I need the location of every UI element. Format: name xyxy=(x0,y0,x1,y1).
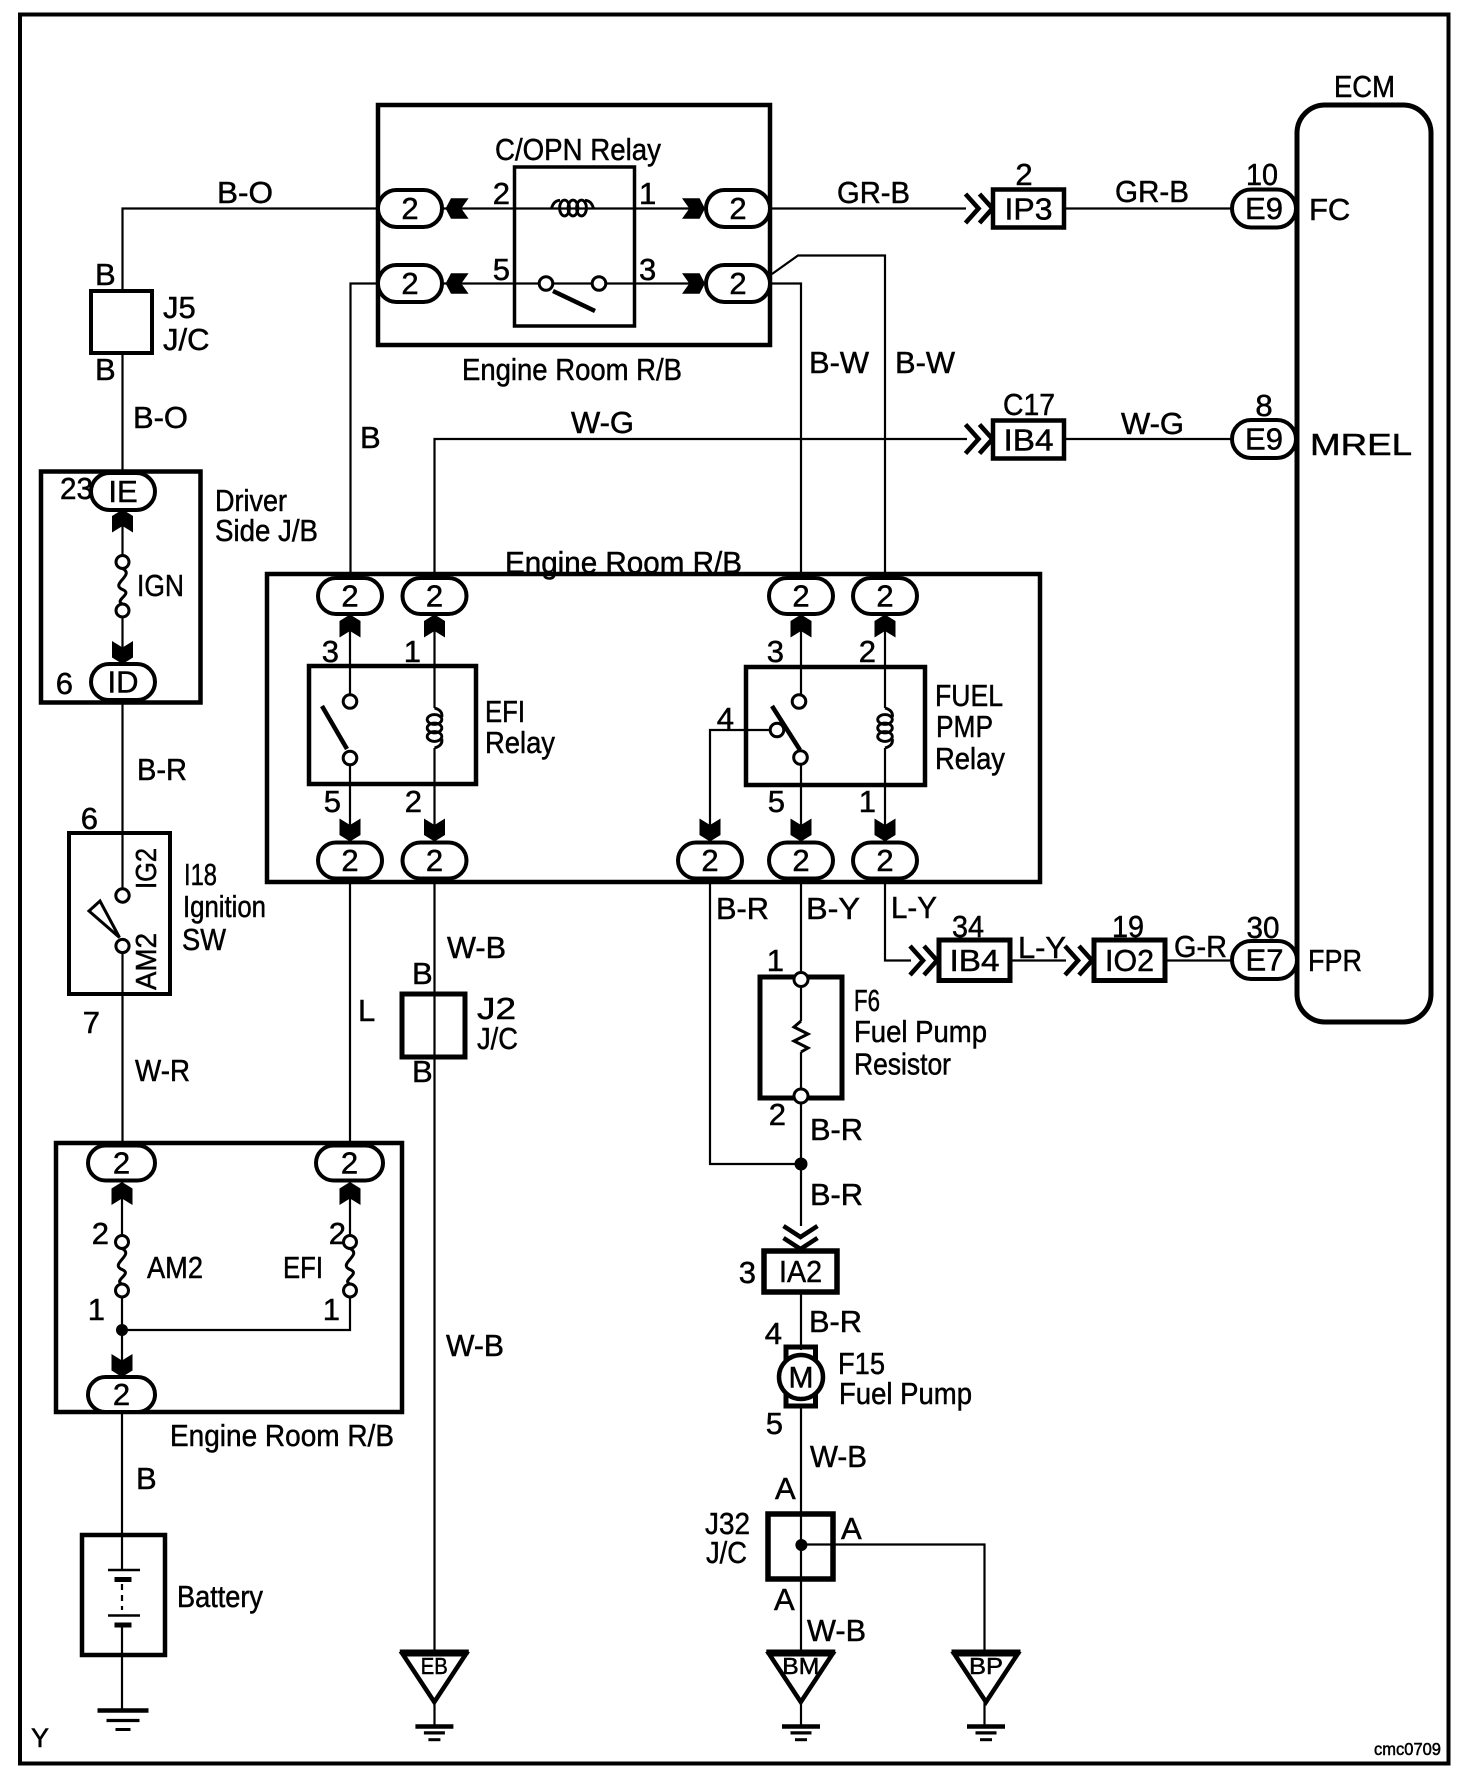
svg-text:Fuel Pump: Fuel Pump xyxy=(854,1014,987,1049)
Engine Room R/B box (C/OPN relay) xyxy=(378,105,770,345)
svg-text:Fuel Pump: Fuel Pump xyxy=(839,1376,972,1411)
wire B-O from J5 to Driver Side J/B pin 23 xyxy=(121,351,123,474)
fuel pump F15 motor xyxy=(779,1347,823,1406)
chevron connector to IB4 C17 xyxy=(966,425,993,454)
svg-text:1: 1 xyxy=(859,784,876,819)
C/OPN relay switch blade xyxy=(553,291,595,311)
label FPR xyxy=(1308,943,1362,978)
wire label B-W (right) xyxy=(895,345,956,380)
svg-text:B: B xyxy=(95,352,116,387)
svg-text:B: B xyxy=(412,956,433,991)
EFI relay box xyxy=(309,666,476,784)
label EFI xyxy=(283,1250,323,1285)
wire A from J32 junction to BP ground xyxy=(801,1545,985,1653)
svg-text:A: A xyxy=(775,1471,796,1506)
wire inside Driver J/B: IGN fuse to ID xyxy=(121,615,123,666)
battery box xyxy=(82,1535,165,1655)
svg-text:F6: F6 xyxy=(854,983,880,1018)
footnote Y xyxy=(31,1723,49,1753)
svg-text:B: B xyxy=(95,257,116,292)
svg-text:Engine Room R/B: Engine Room R/B xyxy=(170,1418,394,1453)
chevron connector to IP3 xyxy=(966,194,993,223)
wire from EFI fuse bottom to junction xyxy=(122,1297,350,1330)
connector E9 (MREL) xyxy=(1232,420,1296,458)
svg-text:W-B: W-B xyxy=(447,930,506,965)
ground symbol BM xyxy=(782,1727,820,1740)
svg-text:IGN: IGN xyxy=(137,568,184,603)
pin 23 label xyxy=(60,471,93,506)
wire label B (EFI relay feed) xyxy=(360,420,381,455)
svg-text:8: 8 xyxy=(1255,388,1272,423)
connector 2 (battery side) xyxy=(88,1377,155,1412)
pin 19 label xyxy=(1112,909,1144,944)
fuel pump resistor F6 box xyxy=(760,977,842,1098)
wire W-G from IB4 to ECM MREL xyxy=(1064,438,1232,440)
svg-text:FUEL: FUEL xyxy=(935,678,1003,713)
wire FUEL PMP relay coil pin 2 xyxy=(884,614,886,708)
svg-text:PMP: PMP xyxy=(936,709,993,744)
pin 1 label (AM2) xyxy=(88,1292,105,1327)
pin 4 label (FUEL PMP relay) xyxy=(717,701,734,736)
chevron connector to IA2 xyxy=(784,1226,818,1249)
wire B from C/OPN relay pin 5 to EFI relay pin 3 xyxy=(351,284,379,580)
svg-text:2: 2 xyxy=(792,843,809,878)
junction node B-R xyxy=(795,1158,808,1171)
svg-text:IO2: IO2 xyxy=(1105,943,1154,978)
wire label B-R xyxy=(137,752,187,787)
connector 2 (C/OPN pin 5 side) xyxy=(378,265,442,302)
chevron connector to IO2 xyxy=(1065,946,1092,975)
EFI relay coil xyxy=(427,708,442,748)
wire label W-B (below pump) xyxy=(810,1439,867,1474)
svg-text:B: B xyxy=(412,1054,433,1089)
svg-text:3: 3 xyxy=(639,252,656,287)
wire G-R from IO2 to ECM FPR xyxy=(1165,959,1232,961)
label Engine Room R/B (lower) xyxy=(170,1418,394,1453)
label IGN xyxy=(137,568,184,603)
wire A from J32 to BM ground xyxy=(800,1579,802,1652)
svg-text:2: 2 xyxy=(876,579,893,614)
connector 2 (EFI fuse top) xyxy=(316,1146,383,1181)
wire label B (battery) xyxy=(136,1461,157,1496)
pin 3 label (EFI relay) xyxy=(322,634,339,669)
label Battery xyxy=(177,1579,263,1614)
connector arrows down (relay bottoms) xyxy=(340,819,896,842)
wire label B-R (above IA2) xyxy=(810,1177,863,1212)
pin 2 label (EFI) xyxy=(329,1216,346,1251)
svg-text:2: 2 xyxy=(401,191,418,226)
connector 2 (FUEL PMP pin 3 top) xyxy=(769,578,833,614)
junction node below AM2 fuse xyxy=(116,1324,128,1336)
svg-text:Ignition: Ignition xyxy=(183,889,266,924)
junction connector J2 J/C xyxy=(402,994,465,1057)
svg-text:2: 2 xyxy=(426,843,443,878)
pin 2 label xyxy=(493,176,510,211)
svg-text:W-R: W-R xyxy=(135,1053,190,1088)
connector 2 (EFI relay pin 1 top) xyxy=(403,578,467,614)
chevron connector to IB4 (34) xyxy=(910,946,937,975)
wire label W-B (above EB) xyxy=(446,1328,504,1363)
label AM2 (rotated) xyxy=(131,933,163,990)
svg-text:J5: J5 xyxy=(163,290,196,325)
wire label W-B (above BM) xyxy=(807,1613,866,1648)
svg-text:ECM: ECM xyxy=(1334,69,1395,104)
svg-text:B-R: B-R xyxy=(716,891,769,926)
wire label B (below J2) xyxy=(412,1054,433,1089)
pin 1 label (FUEL PMP relay) xyxy=(859,784,876,819)
pin 6 label xyxy=(56,666,73,701)
wire W-B from EFI relay pin 2 through J2 to EB ground xyxy=(433,879,435,1653)
svg-text:FC: FC xyxy=(1309,192,1350,227)
pin 5 label (EFI relay) xyxy=(324,784,341,819)
svg-text:5: 5 xyxy=(768,784,785,819)
C/OPN relay switch contacts xyxy=(539,277,606,291)
fuse AM2 xyxy=(116,1236,129,1298)
pin 2 label (FUEL PMP relay) xyxy=(859,634,876,669)
wire B-W from C/OPN relay pin 3 to FUEL PMP relay coil pin 2 xyxy=(772,256,885,580)
wire B-R from F6 pin 2 to IA2 xyxy=(800,1052,802,1226)
wire FUEL PMP relay switch pin 5 xyxy=(800,764,802,843)
wire inside Driver J/B: IE to IGN fuse xyxy=(121,510,123,557)
wire from BP triangle to ground xyxy=(983,1702,985,1725)
ground symbol BP xyxy=(967,1727,1005,1740)
pin 5 label xyxy=(493,252,510,287)
label Driver Side J/B xyxy=(215,483,318,548)
F6 pin 2 contact xyxy=(794,1089,808,1103)
svg-text:3: 3 xyxy=(767,634,784,669)
svg-text:B-O: B-O xyxy=(133,400,188,435)
connector arrow up (IE) xyxy=(112,510,133,533)
wire from battery to ground xyxy=(121,1625,123,1709)
wire label B-O (below J5) xyxy=(133,400,188,435)
svg-text:5: 5 xyxy=(766,1406,783,1441)
wire label B (above J2) xyxy=(412,956,433,991)
wire label B-W (left) xyxy=(809,345,870,380)
connector arrow left row2 xyxy=(446,273,469,294)
connector 2 (FUEL PMP pin 2 top) xyxy=(853,578,917,614)
wire FUEL PMP relay switch pin 3 xyxy=(800,614,802,695)
fuse EFI xyxy=(344,1236,357,1298)
pin 8 label xyxy=(1255,388,1272,423)
connector E7 (FPR) xyxy=(1232,941,1297,979)
wire from AM2 fuse top connector xyxy=(121,1180,123,1236)
svg-text:ID: ID xyxy=(108,665,139,700)
svg-text:2: 2 xyxy=(92,1216,109,1251)
svg-text:Engine Room R/B: Engine Room R/B xyxy=(462,352,682,387)
svg-text:W-B: W-B xyxy=(807,1613,866,1648)
wire label GR-B (right) xyxy=(1115,174,1189,209)
label F6 Fuel Pump Resistor xyxy=(854,983,987,1082)
svg-text:J/C: J/C xyxy=(706,1535,747,1570)
svg-text:EFI: EFI xyxy=(283,1250,323,1285)
connector IO2 xyxy=(1094,940,1165,981)
wire through F6 resistor body xyxy=(800,986,802,1021)
pin 3 label xyxy=(639,252,656,287)
svg-text:Side J/B: Side J/B xyxy=(215,513,318,548)
label F15 Fuel Pump xyxy=(838,1346,972,1411)
wire W-R from ignition switch pin 7 to Engine Room R/B xyxy=(121,953,123,1147)
svg-text:23: 23 xyxy=(60,471,93,506)
svg-text:2: 2 xyxy=(341,843,358,878)
pin 1 label xyxy=(639,176,656,211)
FUEL PMP relay switch blade xyxy=(772,706,800,750)
wire FUEL PMP relay coil pin 1 xyxy=(884,748,886,843)
svg-text:BP: BP xyxy=(969,1653,1003,1679)
svg-text:J/C: J/C xyxy=(477,1021,518,1056)
pin 7 label xyxy=(83,1005,100,1040)
wire B-O from C/OPN relay pin 2 to J5 xyxy=(123,209,379,294)
connector IB4 (34) xyxy=(939,940,1010,981)
svg-text:B-R: B-R xyxy=(137,752,187,787)
svg-text:G-R: G-R xyxy=(1174,929,1227,964)
svg-text:IB4: IB4 xyxy=(1004,423,1054,458)
svg-text:2: 2 xyxy=(426,579,443,614)
wire from AM2 fuse bottom through junction to connector 2 xyxy=(121,1297,123,1378)
svg-text:2: 2 xyxy=(701,843,718,878)
wire from EFI fuse top connector xyxy=(349,1180,351,1236)
connector arrow up (AM2) xyxy=(112,1182,133,1205)
svg-text:B-R: B-R xyxy=(810,1177,863,1212)
wire B-R from IA2 pin 4 to fuel pump xyxy=(800,1292,802,1350)
connector 2 (EFI relay pin 3 top) xyxy=(318,578,382,614)
wire label L-Y (top) xyxy=(891,890,937,925)
svg-text:FPR: FPR xyxy=(1308,943,1362,978)
EFI relay switch contacts xyxy=(343,695,357,765)
wire label W-R xyxy=(135,1053,190,1088)
svg-text:W-G: W-G xyxy=(1121,406,1184,441)
C/OPN relay coil xyxy=(552,200,594,216)
Engine Room R/B box (fuses) xyxy=(56,1143,402,1412)
ignition switch IG2 contact xyxy=(116,889,129,902)
connector 2 (C/OPN pin 1 side) xyxy=(706,190,770,227)
svg-text:B-W: B-W xyxy=(809,345,870,380)
connector arrow left row1 xyxy=(446,198,469,219)
svg-text:GR-B: GR-B xyxy=(1115,174,1189,209)
svg-text:2: 2 xyxy=(113,1377,130,1412)
svg-text:B-W: B-W xyxy=(895,345,956,380)
connector 2 (EFI relay pin 2 bottom) xyxy=(403,843,467,879)
ground triangle BP xyxy=(952,1652,1021,1702)
label EFI Relay xyxy=(485,694,555,760)
connector 2 (AM2 fuse top) xyxy=(88,1146,155,1181)
fuse IGN xyxy=(116,556,129,618)
label Engine Room R/B (top) xyxy=(462,352,682,387)
wire EFI relay coil pin 1 xyxy=(433,614,435,708)
svg-text:IG2: IG2 xyxy=(131,848,163,889)
svg-text:10: 10 xyxy=(1246,157,1278,192)
svg-text:cmc0709: cmc0709 xyxy=(1374,1739,1441,1759)
svg-text:GR-B: GR-B xyxy=(837,175,910,210)
wire B-R from FUEL PMP relay pin 4 to junction xyxy=(710,879,801,1165)
svg-text:1: 1 xyxy=(767,943,784,978)
ground triangle EB xyxy=(400,1652,469,1702)
wire label B-O (top) xyxy=(217,175,273,210)
pin 1 label (EFI) xyxy=(323,1292,340,1327)
wire B-W from C/OPN relay pin 3 to FUEL PMP relay pin 3 xyxy=(770,284,801,580)
label AM2 xyxy=(147,1250,203,1285)
F6 pin 1 contact xyxy=(794,973,808,987)
svg-text:A: A xyxy=(774,1582,795,1617)
svg-text:2: 2 xyxy=(341,1146,358,1181)
svg-text:4: 4 xyxy=(717,701,734,736)
wire inside C/OPN relay switch row xyxy=(442,282,706,284)
wire label B-R (below IA2) xyxy=(809,1304,862,1339)
svg-text:2: 2 xyxy=(729,191,746,226)
svg-text:1: 1 xyxy=(323,1292,340,1327)
pin 5 label (FUEL PMP relay) xyxy=(768,784,785,819)
svg-text:W-B: W-B xyxy=(810,1439,867,1474)
label MREL xyxy=(1310,427,1412,462)
svg-text:IB4: IB4 xyxy=(950,943,1000,978)
label J5 J/C xyxy=(163,290,210,357)
svg-text:E9: E9 xyxy=(1245,191,1283,226)
svg-text:MREL: MREL xyxy=(1310,427,1412,462)
Engine Room R/B box (relays) xyxy=(267,574,1040,882)
svg-text:4: 4 xyxy=(765,1316,782,1351)
svg-text:2: 2 xyxy=(859,634,876,669)
pin 2 label (EFI relay) xyxy=(405,784,422,819)
FUEL PMP relay box xyxy=(746,667,925,785)
svg-text:C/OPN Relay: C/OPN Relay xyxy=(495,132,661,167)
junction connector J5 J/C xyxy=(91,291,152,353)
svg-text:2: 2 xyxy=(405,784,422,819)
connector arrows up (relay tops) xyxy=(340,615,896,638)
wire B from Engine Room R/B to battery xyxy=(121,1412,123,1570)
wire label A (above J32) xyxy=(775,1471,796,1506)
connector IB4 (C17) xyxy=(993,421,1064,459)
svg-text:IE: IE xyxy=(108,474,137,509)
wire EFI relay switch pin 5 xyxy=(349,765,351,844)
svg-text:M: M xyxy=(789,1362,814,1395)
svg-text:2: 2 xyxy=(876,843,893,878)
svg-text:2: 2 xyxy=(729,266,746,301)
wire label A (below J32) xyxy=(774,1582,795,1617)
connector 2 (C/OPN pin 2 side) xyxy=(378,190,442,227)
wire L-Y from FUEL PMP relay pin 1 to IB4 xyxy=(885,879,911,961)
svg-text:B-O: B-O xyxy=(217,175,273,210)
svg-text:1: 1 xyxy=(88,1292,105,1327)
svg-text:BM: BM xyxy=(782,1653,819,1679)
wire inside J32 through junction xyxy=(800,1516,802,1579)
ground symbol EB xyxy=(415,1727,453,1740)
svg-text:L-Y: L-Y xyxy=(1018,930,1066,965)
wire L from EFI relay pin 5 to Engine Room R/B xyxy=(349,879,351,1148)
wire label B-Y xyxy=(806,891,860,926)
connector arrow down (ID) xyxy=(112,641,133,664)
connector C17 label xyxy=(1003,387,1055,422)
pin 2 label above IP3 xyxy=(1015,157,1032,192)
connector ID xyxy=(91,664,155,700)
label J32 J/C xyxy=(705,1506,750,1570)
pin 30 label xyxy=(1247,910,1280,945)
svg-text:Y: Y xyxy=(31,1723,49,1753)
svg-text:Relay: Relay xyxy=(935,741,1005,776)
svg-text:L-Y: L-Y xyxy=(891,890,937,925)
svg-text:2: 2 xyxy=(769,1097,786,1132)
svg-text:2: 2 xyxy=(792,579,809,614)
svg-text:Resistor: Resistor xyxy=(854,1047,951,1082)
pin 3 label (FUEL PMP relay) xyxy=(767,634,784,669)
svg-text:5: 5 xyxy=(493,252,510,287)
svg-text:Relay: Relay xyxy=(485,725,555,760)
wire label GR-B xyxy=(837,175,910,210)
svg-text:J/C: J/C xyxy=(163,322,210,357)
svg-text:AM2: AM2 xyxy=(131,933,163,990)
svg-text:B-R: B-R xyxy=(809,1304,862,1339)
label FC xyxy=(1309,192,1350,227)
svg-text:Battery: Battery xyxy=(177,1579,263,1614)
svg-text:2: 2 xyxy=(113,1146,130,1181)
ignition switch I18 box xyxy=(69,833,170,994)
connector 2 (EFI relay pin 5 bottom) xyxy=(318,843,382,879)
ignition switch lever xyxy=(89,901,120,938)
wire label W-G (right) xyxy=(1121,406,1184,441)
C/OPN relay inner box xyxy=(515,167,635,326)
ECM block xyxy=(1297,69,1431,1022)
wire label W-G (left) xyxy=(571,405,634,440)
label FUEL PMP Relay xyxy=(935,678,1005,776)
svg-text:IA2: IA2 xyxy=(779,1254,822,1289)
svg-text:2: 2 xyxy=(341,579,358,614)
svg-text:B: B xyxy=(360,420,381,455)
connector arrow right row1 xyxy=(682,198,705,219)
pin 4 label (fuel pump) xyxy=(765,1316,782,1351)
svg-text:A: A xyxy=(841,1511,862,1546)
pin 1 label (F6) xyxy=(767,943,784,978)
label I18 Ignition SW xyxy=(182,857,266,957)
FUEL PMP relay coil xyxy=(878,708,893,748)
footnote cmc0709 xyxy=(1374,1739,1441,1759)
wire label B (above J5) xyxy=(95,257,116,292)
wire GR-B from C/OPN relay pin 1 to IP3 xyxy=(770,207,966,209)
svg-text:W-G: W-G xyxy=(571,405,634,440)
ground triangle BM xyxy=(766,1652,835,1702)
wire label L xyxy=(358,993,375,1028)
pin 34 label xyxy=(952,909,984,944)
svg-text:2: 2 xyxy=(493,176,510,211)
svg-text:W-B: W-B xyxy=(446,1328,504,1363)
wire label B-R (pin4) xyxy=(716,891,769,926)
svg-text:EB: EB xyxy=(421,1653,448,1679)
svg-text:B-Y: B-Y xyxy=(806,891,860,926)
pin 5 label (fuel pump) xyxy=(766,1406,783,1441)
connector IE xyxy=(91,473,155,510)
svg-text:7: 7 xyxy=(83,1005,100,1040)
wire label B (below J5) xyxy=(95,352,116,387)
svg-text:1: 1 xyxy=(639,176,656,211)
pin 10 label xyxy=(1246,157,1278,192)
label IG2 (rotated) xyxy=(131,848,163,889)
FUEL PMP relay switch contacts xyxy=(770,695,807,765)
connector 2 (FUEL PMP pin 1 bottom) xyxy=(853,843,917,879)
svg-text:E9: E9 xyxy=(1245,422,1283,457)
wire W-B from fuel pump pin 5 to J32 xyxy=(800,1404,802,1516)
wire EFI relay coil pin 2 xyxy=(433,748,435,843)
svg-text:IP3: IP3 xyxy=(1005,192,1053,227)
connector 2 (FUEL PMP pin 5 bottom) xyxy=(769,843,833,879)
connector arrow right row2 xyxy=(682,273,705,294)
wire from BM triangle to ground xyxy=(800,1702,802,1725)
pin 2 label (F6) xyxy=(769,1097,786,1132)
svg-text:5: 5 xyxy=(324,784,341,819)
wire W-G from EFI relay coil pin 1 to IB4 C17 xyxy=(435,439,968,579)
label C/OPN Relay xyxy=(495,132,661,167)
Driver Side J/B box xyxy=(41,472,201,703)
connector E9 (FC) xyxy=(1232,190,1296,228)
junction connector J32 J/C xyxy=(768,1514,833,1579)
J32 junction node xyxy=(795,1539,807,1551)
pin 6 label (ignition switch) xyxy=(81,801,98,836)
